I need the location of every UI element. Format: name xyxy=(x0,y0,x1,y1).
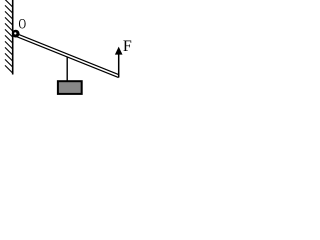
wall line xyxy=(12,0,14,75)
force arrow head xyxy=(115,47,123,55)
force arrow F line xyxy=(118,53,120,78)
svg-text:F: F xyxy=(123,38,132,55)
pivot O (hinge) xyxy=(12,30,20,38)
wall hatching xyxy=(5,0,13,73)
weight box xyxy=(58,81,82,94)
beam upper line xyxy=(16,33,119,74)
svg-text:O: O xyxy=(19,15,27,32)
background xyxy=(0,0,135,100)
beam lower line xyxy=(16,36,119,77)
string xyxy=(66,57,68,81)
